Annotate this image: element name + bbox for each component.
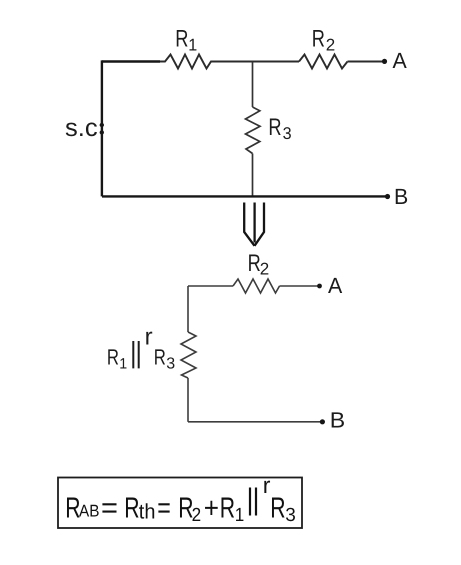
svg-text:A: A — [393, 48, 408, 73]
circuit 2: wire top horizontal — [188, 285, 233, 287]
svg-text:B: B — [394, 184, 408, 209]
svg-text:2: 2 — [326, 36, 335, 55]
svg-text:3: 3 — [166, 355, 175, 372]
label R1 — [175, 25, 197, 54]
wire bottom — [102, 195, 388, 197]
svg-text:B: B — [330, 407, 345, 432]
svg-text:R: R — [312, 26, 325, 53]
svg-text:R: R — [220, 493, 235, 525]
circuit 2: label R1||r R3 — [107, 323, 175, 372]
svg-text:R: R — [270, 493, 285, 525]
svg-text:s.c: s.c — [65, 114, 98, 142]
s.c terminal dots — [100, 123, 104, 127]
svg-text:AB: AB — [79, 501, 99, 520]
terminal A dot — [382, 59, 387, 64]
svg-text:3: 3 — [285, 505, 296, 526]
svg-text:2: 2 — [260, 260, 269, 279]
svg-text:A: A — [328, 273, 343, 298]
terminal B dot — [385, 194, 390, 199]
svg-text:R: R — [175, 25, 188, 52]
svg-text:R: R — [154, 345, 166, 370]
svg-text:1: 1 — [235, 505, 245, 526]
svg-text:th: th — [139, 500, 156, 523]
formula text — [65, 472, 296, 526]
formula box — [58, 478, 302, 529]
resistor R1 — [160, 55, 216, 69]
circuit 2: wire R2 to A — [280, 285, 320, 287]
resistor R3 — [246, 107, 261, 154]
svg-text:+: + — [204, 493, 219, 525]
circuit 2: wire R to bottom — [187, 378, 189, 422]
svg-text:R: R — [268, 114, 281, 141]
wire left vertical (s.c.) — [101, 60, 103, 196]
circuit 2: wire bottom horizontal — [188, 421, 322, 423]
wire node to R2 — [252, 61, 299, 63]
svg-text:R: R — [248, 250, 261, 277]
resistor R2 — [299, 55, 348, 69]
svg-text:1: 1 — [119, 355, 127, 372]
circuit 2: wire left vertical top — [187, 286, 189, 332]
svg-text:r: r — [145, 323, 153, 350]
svg-text:=: = — [101, 493, 118, 525]
svg-text:2: 2 — [192, 505, 202, 526]
wire R3 to bottom — [252, 154, 254, 197]
wire node down to R3 — [252, 62, 254, 108]
wire R1 to node — [216, 61, 252, 63]
circuit 2: label R2 — [248, 250, 270, 279]
svg-text:R: R — [124, 493, 139, 525]
wire R2 to A — [348, 61, 385, 63]
svg-text:1: 1 — [188, 35, 197, 54]
label R2 — [312, 26, 335, 55]
svg-text:3: 3 — [283, 124, 292, 143]
circuit 2: terminal A dot — [317, 284, 322, 289]
circuit 2: terminal B dot — [320, 419, 325, 424]
svg-text:R: R — [107, 345, 119, 370]
circuit 2: resistor R1||R3 — [181, 332, 196, 378]
svg-text:=: = — [157, 493, 171, 525]
wire top-left segment — [102, 60, 160, 63]
circuit 2: resistor R2 — [233, 279, 280, 293]
label R3 — [268, 114, 291, 143]
reduction arrow — [244, 203, 264, 246]
